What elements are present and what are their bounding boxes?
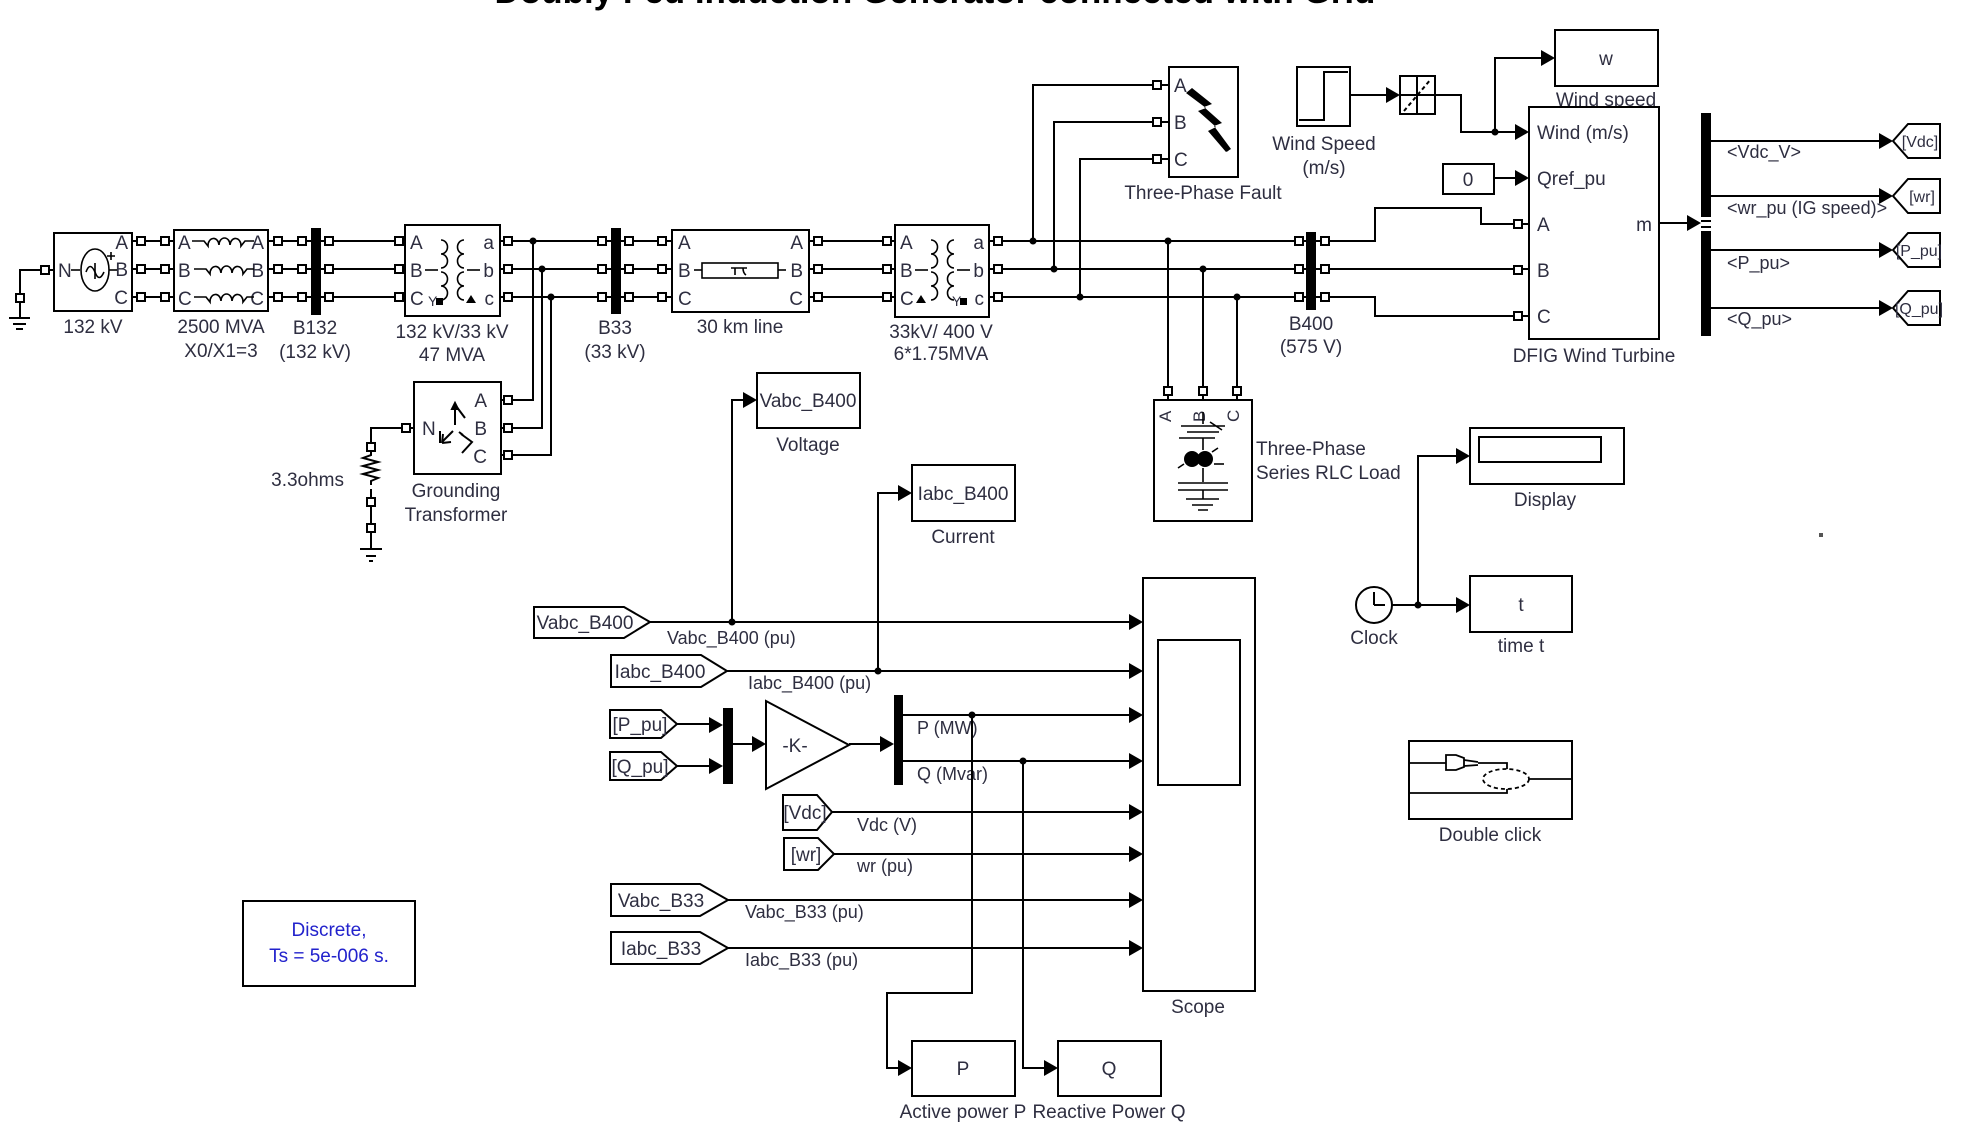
svg-text:Doubly Fed Induction Generator: Doubly Fed Induction Generator connected… xyxy=(495,0,1376,11)
wire RLC tap B down to load xyxy=(1199,266,1207,401)
wire B400 A to DFIG A xyxy=(1316,208,1529,245)
block Display xyxy=(1470,428,1624,511)
wire 30km B to 33kV/400V transformer xyxy=(809,265,895,273)
wire B33 C to 30 km line xyxy=(621,293,672,301)
svg-text:Q (Mvar): Q (Mvar) xyxy=(917,764,988,784)
goto block Vabc_B400 (Voltage) xyxy=(757,373,860,456)
svg-text:Vabc_B33: Vabc_B33 xyxy=(618,891,704,912)
wire bus selector to goto [Q_pu] with label <Q_pu> xyxy=(1711,300,1893,330)
ground symbol below resistor xyxy=(360,549,382,561)
block 33kV/400V 6*1.75MVA transformer xyxy=(889,225,993,365)
svg-text:B: B xyxy=(474,419,487,440)
svg-text:(132 kV): (132 kV) xyxy=(279,342,351,363)
goto tag [Vdc] xyxy=(1893,124,1940,158)
wire B132 A to 132kV/33kV transformer xyxy=(321,237,405,245)
svg-text:B400: B400 xyxy=(1289,314,1333,335)
svg-text:Wind (m/s): Wind (m/s) xyxy=(1537,123,1629,144)
wire demux P (MW) to scope row3 xyxy=(903,707,1143,738)
stray dot artifact xyxy=(1819,533,1823,537)
svg-text:B: B xyxy=(678,261,691,282)
svg-text:Display: Display xyxy=(1514,490,1577,511)
block 30 km line (pi section) xyxy=(672,230,809,338)
clock source xyxy=(1350,587,1398,649)
svg-text:2500 MVA: 2500 MVA xyxy=(177,317,265,338)
wire junction to Current goto xyxy=(875,485,913,675)
wire 2500 MVA B to B132 xyxy=(268,265,311,273)
wire Q (Mvar) junction down to Reactive Power Q block xyxy=(1020,758,1059,1077)
svg-text:B: B xyxy=(178,261,191,282)
from tag Iabc_B400 xyxy=(611,655,727,687)
block Q (Reactive Power Q) xyxy=(1032,1041,1185,1123)
svg-text:B: B xyxy=(251,261,264,282)
bus selector bar xyxy=(1701,113,1711,336)
svg-text:Iabc_B33 (pu): Iabc_B33 (pu) xyxy=(745,950,858,971)
svg-text:-K-: -K- xyxy=(782,736,807,757)
svg-text:Iabc_B400: Iabc_B400 xyxy=(615,662,706,683)
svg-text:a: a xyxy=(483,233,494,254)
from tag [P_pu] xyxy=(610,710,677,738)
block P (Active power P) xyxy=(900,1041,1027,1123)
wire fault tap C up to Three-Phase Fault C xyxy=(1077,155,1170,301)
svg-text:DFIG Wind Turbine: DFIG Wind Turbine xyxy=(1513,346,1676,367)
svg-text:A: A xyxy=(790,233,803,254)
svg-text:[wr]: [wr] xyxy=(791,845,822,866)
svg-text:N: N xyxy=(422,419,436,440)
svg-text:A: A xyxy=(900,233,913,254)
svg-text:[Vdc]: [Vdc] xyxy=(1902,134,1938,151)
wire tap c down to grounding transformer C xyxy=(501,294,555,460)
svg-text:Discrete,: Discrete, xyxy=(292,920,367,941)
svg-text:<P_pu>: <P_pu> xyxy=(1727,253,1790,274)
block constant 0 xyxy=(1443,164,1494,194)
wire B400 B to DFIG B xyxy=(1316,265,1529,274)
block Scope xyxy=(1143,578,1255,1018)
svg-text:Qref_pu: Qref_pu xyxy=(1537,169,1606,190)
block Grounding Transformer xyxy=(405,382,508,526)
svg-text:C: C xyxy=(250,289,264,310)
wire source A to 2500 MVA A xyxy=(132,237,174,245)
svg-text:time t: time t xyxy=(1498,636,1545,657)
wire Iabc_B400 to scope row2 xyxy=(727,663,1143,694)
svg-text:P (MW): P (MW) xyxy=(917,718,978,738)
wire 30km A to 33kV/400V transformer xyxy=(809,237,895,245)
svg-text:[wr]: [wr] xyxy=(1909,189,1935,206)
block Double click xyxy=(1409,741,1572,846)
wire [Vdc] to scope row5 xyxy=(832,804,1143,835)
svg-text:A: A xyxy=(1537,215,1550,236)
block Three-Phase Fault xyxy=(1124,67,1282,204)
svg-text:A: A xyxy=(678,233,691,254)
rate limiter block xyxy=(1400,76,1435,114)
wire rate limiter to Wind input and w display xyxy=(1435,50,1555,140)
svg-text:c: c xyxy=(975,289,985,310)
svg-text:C: C xyxy=(900,289,914,310)
block 132 kV/33 kV 47 MVA transformer xyxy=(395,225,508,366)
svg-text:33kV/ 400 V: 33kV/ 400 V xyxy=(889,322,993,343)
block 132 kV three-phase source xyxy=(54,233,132,338)
svg-text:Vabc_B33 (pu): Vabc_B33 (pu) xyxy=(745,902,864,923)
svg-text:(575 V): (575 V) xyxy=(1280,337,1342,358)
block DFIG Wind Turbine xyxy=(1513,107,1676,367)
svg-text:c: c xyxy=(485,289,495,310)
wire DFIG m to bus selector xyxy=(1659,215,1701,231)
svg-text:(33 kV): (33 kV) xyxy=(584,342,645,363)
wire [P_pu] to mux xyxy=(677,717,723,733)
ground (far left) xyxy=(9,266,54,329)
wire Iabc_B33 to scope row8 xyxy=(728,940,1143,971)
svg-text:B: B xyxy=(410,261,423,282)
demux bar xyxy=(894,695,903,785)
svg-text:(m/s): (m/s) xyxy=(1302,158,1345,179)
from tag [Vdc] xyxy=(783,795,832,830)
svg-text:[P_pu]: [P_pu] xyxy=(613,715,668,736)
bus B33 (33 kV) xyxy=(584,228,645,363)
svg-text:132 kV/33 kV: 132 kV/33 kV xyxy=(395,322,508,343)
wire [wr] to scope row6 xyxy=(834,846,1143,876)
wire [Q_pu] to mux xyxy=(677,758,723,774)
from tag [wr] xyxy=(784,838,834,870)
wire P (MW) junction down to Active power P block xyxy=(887,712,976,1077)
svg-text:[Q_pu]: [Q_pu] xyxy=(611,757,668,778)
wire B33 A to 30 km line xyxy=(621,237,672,245)
svg-text:a: a xyxy=(973,233,984,254)
svg-text:C: C xyxy=(1224,410,1243,422)
wire demux Q (Mvar) to scope row4 xyxy=(903,753,1143,784)
svg-text:b: b xyxy=(973,261,984,282)
block w (wind speed display) xyxy=(1555,30,1658,111)
svg-text:wr (pu): wr (pu) xyxy=(856,856,913,876)
bus B400 (575 V) xyxy=(1280,232,1342,358)
svg-text:Grounding: Grounding xyxy=(412,481,501,502)
svg-text:[Q_pu]: [Q_pu] xyxy=(1895,301,1943,318)
mux bar xyxy=(723,708,733,784)
svg-text:C: C xyxy=(789,289,803,310)
wire bus selector to goto [P_pu] with label <P_pu> xyxy=(1711,242,1893,274)
wire 0 to Qref_pu xyxy=(1494,170,1529,186)
svg-text:A: A xyxy=(251,233,264,254)
svg-text:N: N xyxy=(58,261,72,282)
title: Doubly Fed Induction Generator connected with Grid (clipped at top) xyxy=(495,0,1376,11)
svg-text:Current: Current xyxy=(931,527,995,548)
wire Vabc_B33 to scope row7 xyxy=(728,892,1143,923)
wire source B to 2500 MVA B xyxy=(132,265,174,273)
block 2500 MVA X0/X1=3 source impedance xyxy=(174,230,268,362)
wire N to grounding resistor xyxy=(367,424,414,451)
svg-text:Transformer: Transformer xyxy=(405,505,508,526)
from tag Iabc_B33 xyxy=(611,932,728,964)
svg-text:Three-Phase Fault: Three-Phase Fault xyxy=(1124,183,1282,204)
svg-text:B33: B33 xyxy=(598,318,632,339)
svg-text:Series RLC Load: Series RLC Load xyxy=(1256,463,1401,484)
svg-text:47 MVA: 47 MVA xyxy=(419,345,486,366)
wire gain to demux xyxy=(849,736,894,752)
wire B33 B to 30 km line xyxy=(621,265,672,273)
goto block Iabc_B400 (Current) xyxy=(912,465,1015,548)
svg-text:C: C xyxy=(178,289,192,310)
svg-text:Iabc_B33: Iabc_B33 xyxy=(621,939,701,960)
goto tag [Q_pu] xyxy=(1893,291,1943,325)
wire B400 C to DFIG C xyxy=(1316,293,1529,320)
svg-text:Three-Phase: Three-Phase xyxy=(1256,439,1366,460)
wire bus selector to goto [Vdc] with label <Vdc_V> xyxy=(1711,133,1893,163)
svg-text:Active power P: Active power P xyxy=(900,1102,1027,1123)
svg-text:A: A xyxy=(1174,76,1187,97)
wire clock to time t and Display xyxy=(1392,448,1470,613)
svg-text:B: B xyxy=(1190,411,1209,422)
svg-text:6*1.75MVA: 6*1.75MVA xyxy=(894,344,989,365)
svg-text:B: B xyxy=(790,261,803,282)
svg-text:B: B xyxy=(1537,261,1550,282)
svg-text:C: C xyxy=(678,289,692,310)
wire transformer a to B400 (fault tap A, RLC tap A) xyxy=(989,237,1306,245)
svg-text:132 kV: 132 kV xyxy=(63,317,122,338)
wire RLC tap C down to load xyxy=(1233,294,1241,401)
svg-text:[P_pu]: [P_pu] xyxy=(1896,243,1942,260)
wire transformer a to B33 (with grounding transformer tap A) xyxy=(500,237,611,245)
svg-text:X0/X1=3: X0/X1=3 xyxy=(184,341,257,362)
svg-text:B132: B132 xyxy=(293,318,337,339)
svg-text:<wr_pu (IG speed)>: <wr_pu (IG speed)> xyxy=(1727,198,1887,219)
svg-text:A: A xyxy=(178,233,191,254)
svg-text:3.3ohms: 3.3ohms xyxy=(271,470,344,491)
goto tag [P_pu] xyxy=(1893,233,1942,267)
svg-text:B: B xyxy=(900,261,913,282)
svg-text:B: B xyxy=(1174,113,1187,134)
wire resistor to ground xyxy=(367,489,375,549)
svg-text:C: C xyxy=(1537,307,1551,328)
wire 2500 MVA C to B132 xyxy=(268,293,311,301)
wire mux to gain xyxy=(732,736,766,752)
svg-text:Scope: Scope xyxy=(1171,997,1225,1018)
svg-text:Iabc_B400: Iabc_B400 xyxy=(918,484,1009,505)
svg-text:Vabc_B400: Vabc_B400 xyxy=(537,613,634,634)
wire 30km C to 33kV/400V transformer xyxy=(809,293,895,301)
svg-text:C: C xyxy=(410,289,424,310)
wire RLC tap A down to load xyxy=(1164,238,1172,401)
block Three-Phase Series RLC Load xyxy=(1154,400,1401,521)
svg-text:A: A xyxy=(410,233,423,254)
wire transformer b to B33 (with grounding transformer tap B) xyxy=(500,265,611,273)
wire fault tap A up to Three-Phase Fault A xyxy=(1030,81,1170,245)
svg-text:Ts = 5e-006 s.: Ts = 5e-006 s. xyxy=(269,946,389,967)
svg-text:C: C xyxy=(1174,150,1188,171)
svg-text:w: w xyxy=(1598,49,1613,70)
resistor 3.3ohms xyxy=(271,451,378,491)
goto tag [wr] xyxy=(1893,179,1940,213)
svg-text:Reactive Power Q: Reactive Power Q xyxy=(1032,1102,1185,1123)
svg-text:Vdc (V): Vdc (V) xyxy=(857,815,917,835)
svg-text:Double click: Double click xyxy=(1439,825,1542,846)
block Wind Speed (m/s) step source xyxy=(1272,67,1376,179)
bus B132 (132 kV) xyxy=(279,228,351,363)
svg-text:<Vdc_V>: <Vdc_V> xyxy=(1727,142,1801,163)
svg-text:30 km line: 30 km line xyxy=(697,317,784,338)
svg-text:t: t xyxy=(1518,595,1524,616)
svg-text:Vabc_B400: Vabc_B400 xyxy=(760,391,857,412)
wire tap b down to grounding transformer B xyxy=(501,266,546,433)
block time t xyxy=(1470,576,1572,657)
svg-text:Clock: Clock xyxy=(1350,628,1398,649)
svg-text:A: A xyxy=(474,391,487,412)
wire transformer b to B400 (fault tap B, RLC tap B) xyxy=(989,265,1306,273)
svg-text:[Vdc]: [Vdc] xyxy=(783,803,826,824)
gain -K- triangle xyxy=(766,701,849,789)
wire fault tap B up to Three-Phase Fault B xyxy=(1051,118,1170,273)
wire source C to 2500 MVA C xyxy=(132,293,174,301)
svg-text:m: m xyxy=(1636,215,1652,236)
wire step to rate limiter xyxy=(1350,87,1400,103)
from tag Vabc_B33 xyxy=(611,884,728,916)
annotation Discrete Ts = 5e-006 s. xyxy=(243,901,415,986)
svg-text:Voltage: Voltage xyxy=(776,435,839,456)
wire junction to Voltage goto xyxy=(729,392,758,626)
wire 2500 MVA A to B132 xyxy=(268,237,311,245)
wire transformer c to B33 (with grounding transformer tap C) xyxy=(500,293,611,301)
from tag Vabc_B400 xyxy=(534,607,650,638)
svg-text:P: P xyxy=(957,1059,970,1080)
wire bus selector to goto [wr] with label <wr_pu (IG speed)> xyxy=(1711,188,1893,219)
wire transformer c to B400 (fault tap C, RLC tap C) xyxy=(989,293,1306,301)
svg-text:0: 0 xyxy=(1463,170,1474,191)
svg-text:b: b xyxy=(483,261,494,282)
svg-text:<Q_pu>: <Q_pu> xyxy=(1727,309,1792,330)
svg-text:A: A xyxy=(115,233,128,254)
from tag [Q_pu] xyxy=(610,752,677,780)
wire B132 C to 132kV/33kV transformer xyxy=(321,293,405,301)
svg-text:B: B xyxy=(115,260,128,281)
svg-text:Vabc_B400 (pu): Vabc_B400 (pu) xyxy=(667,628,796,649)
svg-text:C: C xyxy=(473,447,487,468)
svg-text:Wind Speed: Wind Speed xyxy=(1272,134,1376,155)
wire B132 B to 132kV/33kV transformer xyxy=(321,265,405,273)
svg-text:Iabc_B400 (pu): Iabc_B400 (pu) xyxy=(748,673,871,694)
svg-text:Q: Q xyxy=(1102,1059,1117,1080)
svg-text:A: A xyxy=(1156,410,1175,422)
svg-text:C: C xyxy=(114,288,128,309)
wire Vabc_B400 to scope row1 xyxy=(650,614,1143,649)
wire tap a down to grounding transformer A xyxy=(501,238,537,405)
